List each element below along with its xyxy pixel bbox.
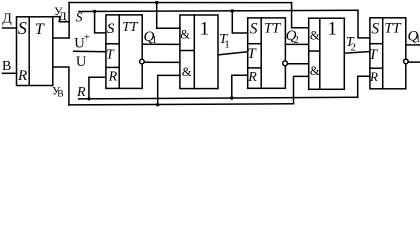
wire UD riser [68, 3, 70, 39]
svg-text:1: 1 [152, 35, 157, 46]
wire input V [3, 72, 17, 74]
svg-text:TT: TT [384, 20, 401, 36]
bus1 UD top bus [69, 2, 292, 4]
block1 T1 output wire [218, 52, 248, 55]
bus3 branch to TT2 R [232, 75, 248, 98]
TT1 divider [118, 15, 120, 89]
block2 divider [319, 18, 321, 89]
left box divider [28, 17, 30, 86]
TT1 cell border S/T [106, 43, 119, 45]
bus1 branch to block1 AND1 [157, 3, 180, 29]
TT2 inverted output bubble [283, 61, 288, 66]
svg-text:R: R [17, 68, 27, 84]
svg-text:R: R [108, 70, 118, 85]
TT3 divider [382, 18, 384, 89]
TT2 Q2 output wire [285, 43, 308, 45]
junction dot bus3 at TT1 [87, 97, 90, 100]
svg-text:&: & [310, 28, 320, 42]
junction dot bus2 at TT2 [231, 9, 234, 12]
junction dot bus3 at TT2 [230, 96, 233, 99]
svg-text:S: S [107, 21, 115, 37]
bus4 U bottom bus [69, 104, 294, 105]
TT2 cell border T/R [248, 67, 262, 69]
svg-text:U: U [76, 54, 87, 70]
bus3 R bus [79, 97, 358, 99]
svg-text:S: S [18, 18, 27, 38]
TT3 cell border T/R [370, 67, 383, 69]
TT2 divider [260, 18, 262, 88]
TT3 Qbar wire to edge [408, 61, 420, 63]
bus4 end leg to block2 AND2 [294, 76, 309, 103]
wire UD stub jog from box top right [53, 17, 69, 22]
left debounce trigger box T [17, 17, 53, 86]
svg-text:Д: Д [2, 11, 12, 26]
wire UD lower tap [53, 37, 69, 39]
TT3 inverted output bubble [404, 59, 409, 64]
TT1 cell border T/R [106, 66, 119, 68]
block2 AND-OR box [309, 18, 345, 89]
TT1 Q1 output wire [142, 43, 180, 45]
svg-text:&: & [182, 65, 192, 79]
TT3 Q3 output wire [406, 44, 420, 46]
bus3 branch to TT1 R [89, 77, 106, 99]
svg-text:2: 2 [294, 35, 299, 46]
bus4 branch to block1 AND2 [158, 75, 180, 104]
flip-flop TT2 box [248, 18, 286, 88]
flip-flop TT3 box [370, 18, 406, 89]
TT1 inverted output bubble [140, 59, 145, 64]
svg-text:S: S [250, 20, 258, 37]
block2 T2 output wire [344, 52, 370, 54]
svg-text:В: В [57, 89, 63, 99]
svg-text:&: & [310, 64, 320, 78]
svg-text:1: 1 [200, 18, 210, 39]
svg-text:S: S [76, 9, 83, 24]
block2 AND cells border [309, 50, 320, 52]
bus2 branch to TT1 S [95, 11, 106, 33]
wire input D [3, 27, 17, 29]
svg-text:Д: Д [58, 9, 66, 23]
svg-text:R: R [76, 85, 86, 100]
svg-text:T: T [106, 48, 115, 63]
svg-text:R: R [369, 69, 378, 84]
bus2 S bus [79, 10, 358, 11]
TT3 cell border S/T [370, 43, 383, 45]
TT2 Qbar wire to block2 [288, 63, 309, 65]
svg-text:T: T [35, 21, 45, 38]
bus1 end leg to block2 AND1 [292, 3, 309, 28]
svg-text:T: T [369, 47, 379, 63]
bus2 end leg to TT3 S [358, 10, 370, 38]
svg-text:1: 1 [415, 34, 420, 45]
junction dot bus4 [156, 103, 159, 106]
svg-text:1: 1 [328, 18, 338, 39]
block1 AND-OR box [180, 15, 218, 89]
block1 divider [193, 15, 195, 89]
svg-text:2: 2 [351, 42, 356, 53]
svg-text:T: T [247, 46, 257, 62]
svg-text:S: S [371, 20, 379, 37]
svg-text:+: + [84, 31, 90, 43]
wire U* stub to TT1 T input [74, 50, 106, 53]
junction dot bus1 [155, 1, 158, 4]
svg-text:TT: TT [122, 19, 139, 34]
svg-text:R: R [247, 70, 257, 85]
svg-text:TT: TT [264, 20, 281, 36]
bus2 branch to TT2 S [232, 11, 247, 33]
TT1 Qbar wire to block1 [144, 61, 180, 63]
wire U output and riser down [53, 67, 69, 105]
TT2 cell border S/T [248, 43, 262, 45]
block1 AND cells border [180, 50, 194, 52]
junction dot bus2 at TT1 [93, 10, 96, 13]
svg-text:1: 1 [224, 39, 230, 51]
flip-flop TT1 box [106, 15, 142, 89]
svg-text:&: & [180, 27, 190, 41]
bus3 end leg to TT3 R [358, 76, 370, 97]
svg-text:В: В [2, 59, 11, 74]
